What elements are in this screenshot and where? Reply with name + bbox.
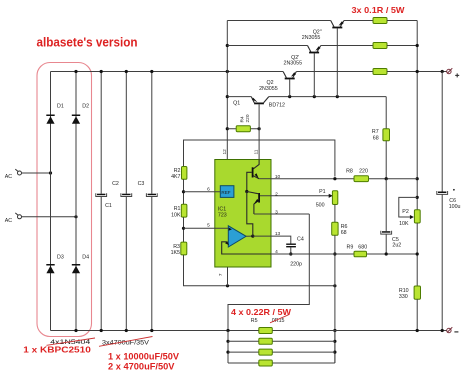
svg-text:R4: R4 bbox=[240, 116, 246, 122]
svg-text:6: 6 bbox=[207, 186, 210, 192]
svg-text:C4: C4 bbox=[297, 236, 304, 242]
resistor R7 bbox=[372, 97, 390, 179]
svg-text:AC: AC bbox=[5, 174, 13, 180]
svg-text:C1: C1 bbox=[105, 203, 112, 209]
resistor R4 bbox=[227, 114, 260, 132]
wire R2-top to P1-top (sense line y=139) bbox=[184, 140, 335, 177]
svg-text:P1: P1 bbox=[319, 189, 326, 195]
svg-text:D3: D3 bbox=[57, 255, 64, 261]
label 0R15 (struck out) bbox=[270, 315, 289, 324]
wire R5 bank left column bbox=[226, 331, 229, 364]
transistor Q1 (BD712 driver) bbox=[233, 97, 285, 109]
svg-text:220: 220 bbox=[245, 114, 251, 122]
annotation 1 x KBPC2510 bbox=[23, 346, 91, 355]
wire P2 bottom to R10 bbox=[416, 223, 419, 286]
pin 11 label bbox=[254, 149, 260, 154]
transistor Q2'' (2N3055) bbox=[302, 21, 344, 42]
svg-text:2N3055: 2N3055 bbox=[259, 86, 278, 92]
svg-text:12: 12 bbox=[222, 149, 228, 155]
wire D2/D4 column bbox=[75, 72, 77, 331]
svg-text:AC: AC bbox=[5, 218, 13, 224]
wire R1 to R3 bbox=[182, 217, 185, 242]
REF block (723 reference) bbox=[220, 186, 234, 198]
resistor R10 bbox=[399, 286, 421, 331]
svg-text:3: 3 bbox=[275, 210, 278, 216]
wire R2 to R1 bbox=[182, 179, 185, 204]
wire top rail (Q2'' collector row) bbox=[227, 20, 330, 22]
svg-text:R5: R5 bbox=[251, 318, 258, 324]
wire Q2'' base drop bbox=[336, 28, 338, 96]
potentiometer P1 bbox=[316, 189, 338, 209]
resistor R9 (pin 4 row) bbox=[271, 244, 417, 256]
output terminal + bbox=[441, 68, 460, 77]
svg-text:3x4700uF/35V: 3x4700uF/35V bbox=[102, 339, 150, 346]
AC input terminal 2 bbox=[5, 213, 22, 224]
wire D1/D3 column bbox=[50, 72, 52, 331]
net: raw DC + rail (bridge top to Q2 collector) bbox=[51, 70, 284, 73]
svg-text:P2: P2 bbox=[402, 209, 409, 215]
wire Q1 emitter row / base bus of 2N3055 bank bbox=[227, 95, 386, 98]
net: output + collector bus vertical x=416.7 bbox=[416, 21, 419, 210]
svg-text:1K5: 1K5 bbox=[171, 250, 180, 256]
pin 12 label bbox=[222, 149, 228, 155]
svg-text:R7: R7 bbox=[372, 129, 379, 135]
svg-text:330: 330 bbox=[399, 294, 408, 300]
diode D1 bbox=[46, 103, 64, 123]
svg-text:C2: C2 bbox=[112, 181, 119, 187]
svg-text:5: 5 bbox=[207, 222, 210, 228]
svg-text:220: 220 bbox=[359, 168, 368, 174]
svg-text:2N3055: 2N3055 bbox=[302, 35, 321, 41]
svg-text:10K: 10K bbox=[171, 212, 181, 218]
annotation 1 x 10000uF/50V bbox=[108, 352, 179, 362]
title annotation "albasete's version" bbox=[37, 35, 138, 49]
net: raw DC vertical feed (collector column x=226.8) bbox=[226, 21, 229, 186]
wire Q2'' emitter row bbox=[344, 20, 373, 22]
svg-text:R9: R9 bbox=[347, 244, 354, 250]
svg-text:10: 10 bbox=[275, 174, 281, 180]
wire Q2 base drop bbox=[289, 79, 291, 96]
resistor 0.1R (bottom, Q2 emitter) bbox=[373, 69, 447, 75]
svg-text:C3: C3 bbox=[138, 181, 145, 187]
AC input terminal 1 bbox=[5, 169, 22, 180]
svg-text:220p: 220p bbox=[290, 261, 302, 267]
wire R3 bottom to pin7 row bbox=[184, 255, 337, 288]
pin 5 wire (non-inverting input) bbox=[184, 222, 229, 228]
svg-text:723: 723 bbox=[218, 212, 227, 218]
pin 7 wire (IC ground) bbox=[218, 267, 227, 286]
annotation 2 x 4700uF/50V bbox=[108, 361, 175, 371]
pin 13 wire (frequency compensation) bbox=[253, 231, 291, 243]
wire Q2 emitter row bbox=[296, 71, 373, 73]
resistor R8 (pin10 output row) bbox=[271, 168, 417, 181]
svg-text:R8: R8 bbox=[346, 168, 353, 174]
resistor 0.1R (middle, Q2' emitter) bbox=[373, 43, 417, 49]
capacitor C3 bbox=[138, 72, 158, 331]
svg-text:68: 68 bbox=[341, 230, 347, 236]
pin 3 wire (current sense) bbox=[254, 210, 309, 216]
svg-text:13: 13 bbox=[275, 231, 281, 237]
svg-text:Q1: Q1 bbox=[233, 101, 240, 107]
diode D2 bbox=[72, 103, 89, 123]
svg-text:680: 680 bbox=[358, 244, 367, 250]
pin 3 sense trace to R5 bank bbox=[228, 214, 309, 331]
wire Q2' collector row bbox=[227, 45, 307, 47]
svg-text:11: 11 bbox=[254, 149, 260, 154]
label R5 bbox=[251, 318, 258, 324]
pin 10 wire (T1 emitter out) bbox=[259, 174, 280, 180]
svg-text:4 x 0.22R / 5W: 4 x 0.22R / 5W bbox=[231, 308, 291, 317]
svg-text:REF: REF bbox=[221, 190, 230, 195]
node T1 base / T2 collector bbox=[245, 190, 248, 193]
wire P1 bottom to R6 bbox=[334, 205, 336, 223]
wire Q1 base to R4/pin11 bbox=[258, 104, 260, 159]
resistor R6 bbox=[332, 222, 348, 236]
resistor R5a (0.22R) bbox=[259, 328, 273, 334]
resistor R5c (0.22R) bbox=[228, 349, 335, 355]
svg-text:albasete's version: albasete's version bbox=[37, 35, 138, 49]
capacitor C4 bbox=[286, 236, 304, 267]
capacitor C2 bbox=[112, 72, 132, 331]
svg-text:3x 0.1R / 5W: 3x 0.1R / 5W bbox=[352, 6, 405, 15]
svg-text:D1: D1 bbox=[57, 103, 64, 109]
wire Q2' base drop bbox=[313, 53, 315, 96]
inverting input feedback loop to pin 4 bbox=[222, 241, 278, 255]
net: negative rail (bridge bottom / R5 row 1) bbox=[51, 329, 447, 332]
resistor R5d (0.22R) bbox=[228, 360, 335, 366]
capacitor C5 bbox=[381, 179, 401, 256]
potentiometer P2 with wiper loop bbox=[399, 197, 420, 227]
svg-text:R6: R6 bbox=[341, 224, 348, 230]
svg-text:R1: R1 bbox=[174, 206, 181, 212]
svg-text:4K7: 4K7 bbox=[171, 174, 180, 180]
capacitor C1 bbox=[96, 72, 112, 331]
svg-text:2u2: 2u2 bbox=[392, 243, 401, 249]
wire R6 bottom / sense column x=334.4 bbox=[333, 235, 336, 363]
svg-text:500: 500 bbox=[316, 203, 325, 209]
resistor R2 bbox=[171, 167, 187, 181]
transistor Q2 (2N3055) bbox=[259, 72, 296, 92]
wire AC1 to D1/D3 column bbox=[22, 171, 52, 174]
pin 2 wire (to P1 wiper) bbox=[260, 191, 333, 198]
wire Q2' emitter row bbox=[321, 45, 373, 47]
svg-text:BD712: BD712 bbox=[269, 102, 285, 108]
svg-text:2: 2 bbox=[275, 191, 278, 197]
resistor R5b (0.22R) bbox=[228, 338, 335, 344]
svg-text:D2: D2 bbox=[82, 103, 89, 109]
op-amp U1 body (IC1 723 block) bbox=[215, 160, 271, 268]
svg-text:2 x 4700uF/50V: 2 x 4700uF/50V bbox=[108, 361, 175, 371]
wire AC2 to D2/D4 column bbox=[22, 215, 78, 218]
resistor 0.1R (top, Q2'' emitter) bbox=[373, 18, 417, 24]
pin 6 wire (REF out to divider) bbox=[184, 186, 221, 192]
annotation 4 x 0.22R / 5W bbox=[231, 308, 291, 317]
svg-text:D4: D4 bbox=[82, 255, 89, 261]
transistor T2 (inside 723) bbox=[247, 192, 260, 215]
annotation 3x4700uF/35V (struck out) bbox=[99, 337, 153, 347]
annotation 3x 0.1R / 5W bbox=[352, 6, 405, 15]
annotation 4x1N5404 (struck out) bbox=[47, 338, 96, 346]
svg-text:1 x KBPC2510: 1 x KBPC2510 bbox=[23, 346, 91, 355]
svg-text:100u: 100u bbox=[449, 204, 461, 210]
bridge rectifier outline (KBPC2510 substitution box) bbox=[37, 63, 92, 337]
resistor R1 bbox=[171, 204, 187, 218]
diode D4 bbox=[72, 255, 89, 274]
svg-text:2N3055: 2N3055 bbox=[284, 61, 303, 67]
diode D3 bbox=[46, 255, 64, 274]
wire R5 bank right column bbox=[333, 331, 336, 364]
capacitor C6 bbox=[437, 72, 461, 331]
transistor Q2' (2N3055) bbox=[284, 46, 321, 67]
output terminal - bbox=[447, 327, 459, 332]
svg-text:7: 7 bbox=[218, 273, 224, 276]
svg-text:68: 68 bbox=[373, 136, 379, 142]
svg-text:1 x 10000uF/50V: 1 x 10000uF/50V bbox=[108, 352, 179, 362]
resistor R3 bbox=[171, 242, 187, 256]
error amplifier (723 op-amp triangle) bbox=[228, 226, 246, 247]
svg-text:10K: 10K bbox=[399, 221, 409, 227]
op-amp output node to T1 base (staircase) bbox=[246, 192, 254, 238]
transistor T1 (inside 723, pass pre-driver) bbox=[247, 160, 259, 192]
